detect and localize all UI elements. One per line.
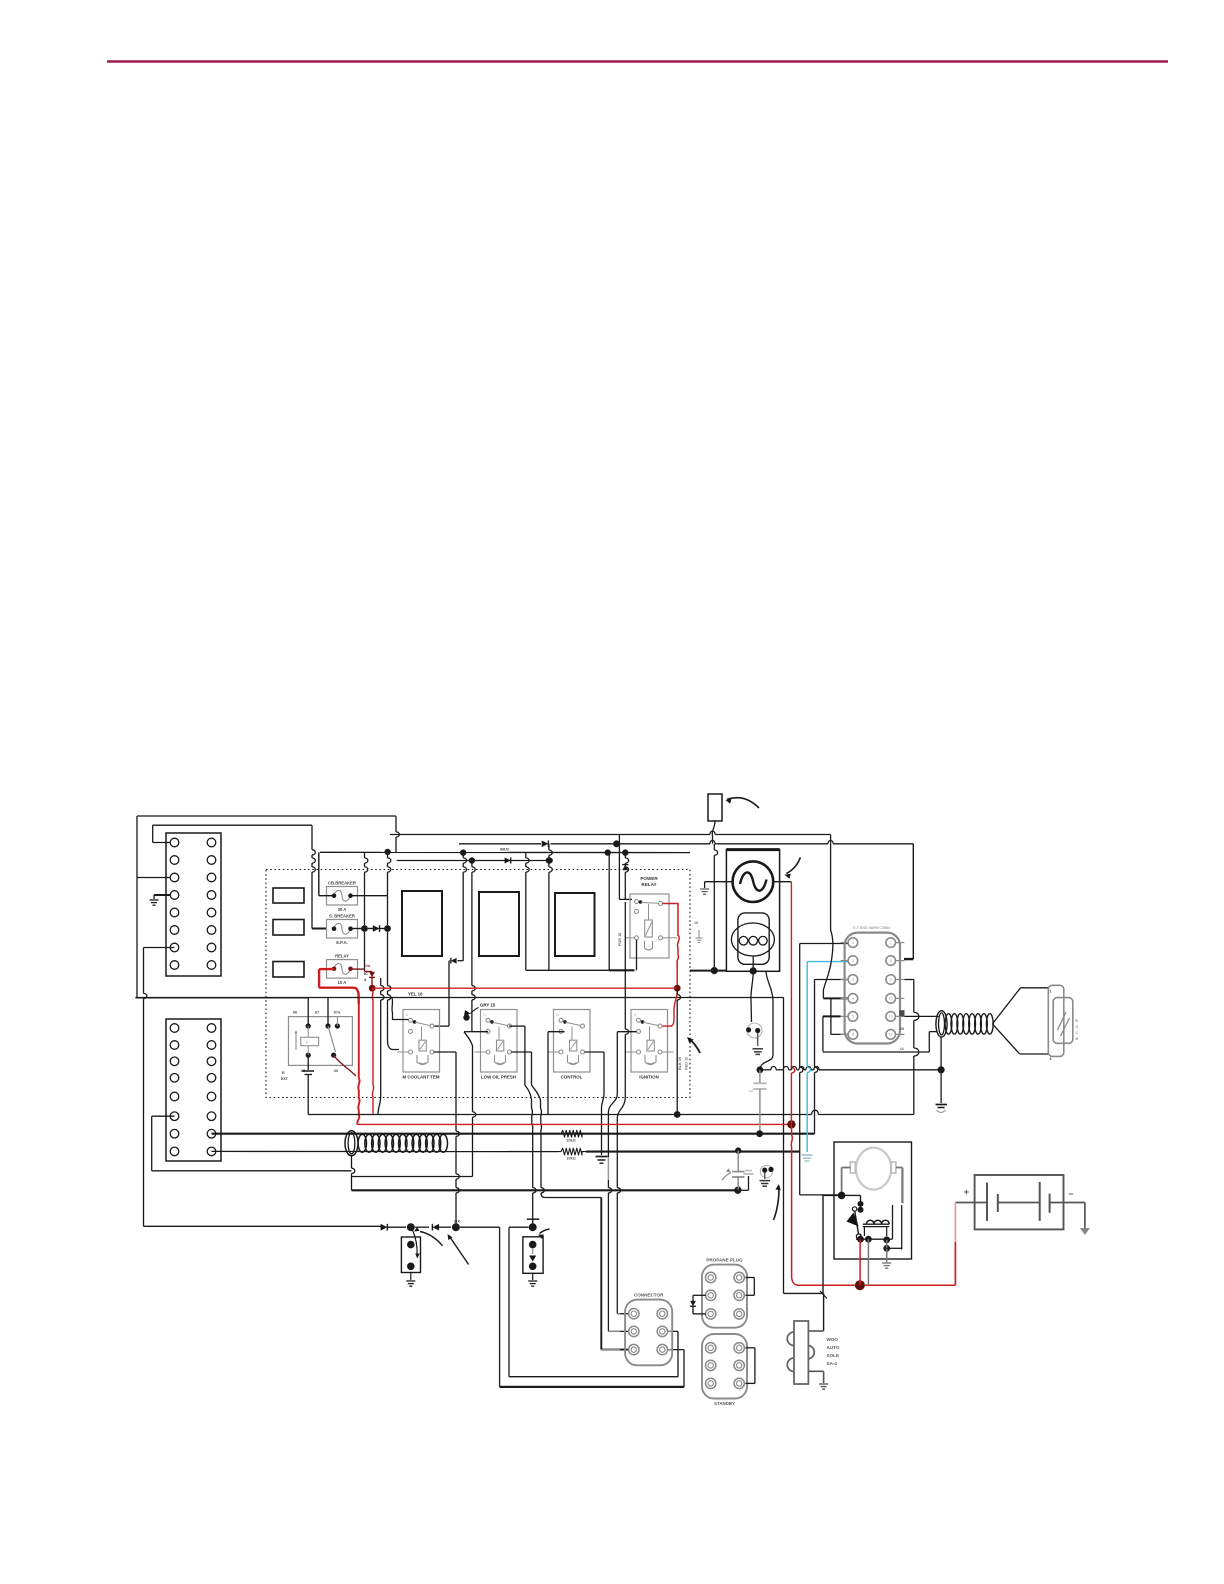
svg-text:E.P.A.: E.P.A. [336, 940, 348, 945]
svg-text:4: 4 [852, 997, 854, 1001]
svg-text:RED 16: RED 16 [685, 1057, 689, 1070]
svg-text:7: 7 [890, 941, 892, 945]
svg-text:POWER: POWER [640, 876, 658, 881]
svg-text:87: 87 [315, 1010, 320, 1015]
svg-text:11: 11 [889, 1015, 893, 1019]
svg-text:5: 5 [852, 1015, 854, 1019]
svg-text:6: 6 [852, 1033, 854, 1037]
svg-text:GRY 15: GRY 15 [480, 1003, 496, 1008]
svg-text:87a: 87a [334, 1010, 341, 1015]
svg-text:10: 10 [889, 997, 893, 1001]
svg-text:LOW OIL PRESH: LOW OIL PRESH [481, 1074, 516, 1079]
svg-text:E: E [282, 1070, 285, 1075]
svg-text:–: – [1068, 1189, 1073, 1199]
svg-text:10kΩ: 10kΩ [566, 1139, 575, 1143]
svg-text:S. BREAKER: S. BREAKER [329, 913, 355, 918]
svg-text:ic: ic [306, 1041, 309, 1045]
svg-text:+: + [964, 1187, 969, 1197]
svg-text:30: 30 [334, 1068, 339, 1073]
svg-text:RELAY: RELAY [641, 882, 656, 887]
svg-text:86: 86 [293, 1010, 298, 1015]
svg-text:1μF: 1μF [748, 1089, 755, 1093]
svg-text:IGNITION: IGNITION [639, 1074, 659, 1079]
svg-text:3: 3 [1050, 1057, 1052, 1061]
svg-text:IC: IC [364, 972, 368, 976]
svg-text:AUTO: AUTO [827, 1345, 840, 1350]
svg-text:4A: 4A [900, 1047, 905, 1051]
svg-text:STANDBY: STANDBY [714, 1401, 735, 1406]
svg-text:30 A: 30 A [338, 907, 347, 912]
svg-text:9: 9 [890, 978, 892, 982]
svg-text:SA-4: SA-4 [827, 1361, 838, 1366]
svg-text:1: 1 [1050, 990, 1052, 994]
svg-text:WOO: WOO [827, 1337, 839, 1342]
svg-text:OX: OX [454, 1219, 460, 1224]
svg-text:10 A: 10 A [338, 980, 347, 985]
svg-text:/BU2: /BU2 [500, 847, 510, 852]
svg-text:E-T ENG HARN CONN: E-T ENG HARN CONN [853, 926, 890, 930]
svg-text:PUR 16: PUR 16 [618, 933, 622, 946]
svg-text:8: 8 [890, 959, 892, 963]
svg-text:M COOLANT TEM: M COOLANT TEM [402, 1074, 439, 1079]
svg-text:SOLE: SOLE [827, 1353, 840, 1358]
svg-text:3: 3 [852, 978, 854, 982]
svg-text:1: 1 [852, 941, 854, 945]
svg-text:2: 2 [852, 959, 854, 963]
svg-text:10kΩ: 10kΩ [566, 1157, 575, 1161]
svg-text:18: 18 [694, 921, 698, 925]
svg-text:1B: 1B [900, 1027, 905, 1031]
svg-text:RELAY: RELAY [335, 953, 349, 958]
svg-text:M: M [1076, 1037, 1079, 1041]
svg-text:12: 12 [889, 1033, 893, 1037]
svg-text:YEL 16: YEL 16 [408, 992, 423, 997]
svg-text:CONTROL: CONTROL [561, 1074, 583, 1079]
svg-text:CB.BREAKER: CB.BREAKER [328, 880, 356, 885]
svg-text:CONNECTOR: CONNECTOR [634, 1292, 664, 1297]
svg-text:BLK 16: BLK 16 [678, 1057, 682, 1070]
svg-text:EXT: EXT [281, 1077, 289, 1081]
svg-text:PROPANE PLUG: PROPANE PLUG [706, 1257, 743, 1262]
